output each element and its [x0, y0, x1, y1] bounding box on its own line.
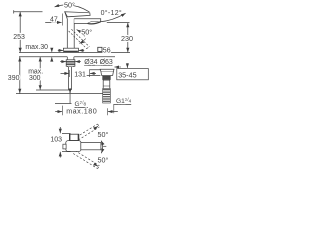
svg-text:0°-12°: 0°-12° — [101, 9, 122, 17]
lower dashed bar — [73, 151, 99, 169]
spout — [74, 19, 101, 24]
basin line left of drain — [84, 74, 100, 76]
103 dim line — [59, 127, 61, 133]
dia63 leader arrow — [114, 66, 121, 68]
max30 arrows — [51, 48, 53, 52]
handle wedge — [65, 12, 90, 17]
svg-text:50°: 50° — [81, 27, 92, 36]
deck bottom line — [19, 56, 115, 58]
hoses — [69, 67, 72, 90]
50deg top arc — [55, 5, 90, 12]
svg-text:131: 131 — [74, 72, 86, 79]
svg-text:max.180: max.180 — [66, 107, 97, 116]
svg-text:G11/4: G11/4 — [116, 97, 132, 105]
handle from above — [69, 134, 78, 140]
small arc near dashed handle — [79, 39, 85, 44]
base flange — [63, 48, 78, 52]
svg-text:47: 47 — [50, 16, 58, 23]
faucet technical drawing — [0, 0, 150, 180]
G114 underline — [113, 104, 131, 106]
253 dim line — [19, 12, 21, 53]
svg-text:50°: 50° — [64, 1, 75, 10]
0-12deg arc — [99, 13, 125, 22]
131 dim — [61, 72, 70, 74]
max300 dim line — [39, 57, 41, 90]
max300 bottom ref — [36, 89, 71, 91]
max180 dim — [55, 111, 62, 113]
47 dim line — [45, 21, 61, 23]
dia34/dia63 underline — [84, 64, 112, 66]
svg-text:50°: 50° — [98, 156, 109, 165]
body column — [67, 19, 74, 49]
390 dim line — [19, 57, 21, 94]
svg-text:50°: 50° — [98, 130, 109, 139]
upper dashed bar — [73, 124, 99, 142]
230 top ref — [107, 22, 130, 24]
svg-text:390: 390 — [8, 75, 20, 82]
nut — [66, 60, 75, 66]
bar tip swivel arc — [101, 141, 102, 154]
svg-text:300: 300 — [29, 75, 41, 82]
253 top ref line — [13, 10, 42, 13]
47 ext line — [61, 14, 63, 26]
230 dim line — [127, 23, 129, 53]
svg-text:56: 56 — [103, 47, 111, 54]
spout inner detail — [88, 21, 99, 23]
shank below deck — [67, 57, 74, 67]
dia34 arrows — [60, 61, 66, 63]
svg-text:max.30: max.30 — [25, 44, 48, 51]
sq56 square symbol — [98, 47, 102, 51]
body cap — [66, 141, 81, 152]
35-45 box — [117, 69, 149, 80]
hose end line — [55, 103, 72, 105]
dashed open handle — [69, 29, 90, 48]
base arrows — [58, 49, 63, 51]
svg-text:253: 253 — [13, 34, 25, 41]
svg-text:Ø34: Ø34 — [84, 59, 97, 66]
hose end long line — [16, 93, 103, 95]
svg-text:103: 103 — [50, 136, 62, 143]
deck top line — [19, 52, 130, 54]
103 ref lines — [62, 132, 71, 134]
svg-text:230: 230 — [121, 34, 133, 43]
drain tailpiece — [103, 76, 110, 89]
spout bar — [81, 143, 101, 150]
drain flange — [100, 69, 114, 71]
svg-text:35-45: 35-45 — [118, 71, 136, 80]
50deg open handle arc — [77, 30, 85, 37]
arrow into box — [126, 63, 128, 68]
131 leader to drain — [90, 69, 110, 71]
svg-text:Ø63: Ø63 — [100, 59, 113, 66]
G38 underline — [75, 106, 89, 108]
